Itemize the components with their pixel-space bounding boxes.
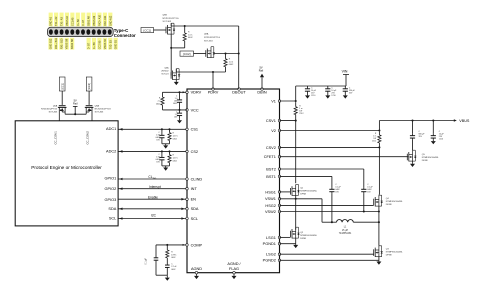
svg-text:VBUS A4: VBUS A4 <box>66 15 69 26</box>
svg-text:Rail: Rail <box>73 102 78 106</box>
svg-text:V2: V2 <box>271 129 276 133</box>
svg-text:4.99 k: 4.99 k <box>171 254 176 256</box>
svg-text:14.7 k: 14.7 k <box>173 158 178 160</box>
svg-text:I2C: I2C <box>151 213 157 217</box>
svg-text:0402: 0402 <box>173 103 177 105</box>
svg-text:2.2: 2.2 <box>158 101 161 103</box>
svg-text:NTZD3152PT1G: NTZD3152PT1G <box>163 18 179 20</box>
svg-text:[CC2]: [CC2] <box>183 52 191 56</box>
svg-text:VSW1: VSW1 <box>265 197 276 201</box>
svg-text:SDA: SDA <box>191 207 199 211</box>
svg-text:TX1+ A2: TX1+ A2 <box>55 16 58 26</box>
svg-text:VIN: VIN <box>342 69 348 73</box>
svg-text:CSV2: CSV2 <box>266 146 276 150</box>
svg-text:SBU1 A8: SBU1 A8 <box>88 15 91 26</box>
svg-text:1.0 k: 1.0 k <box>229 61 233 63</box>
svg-text:SDA: SDA <box>108 207 116 211</box>
svg-text:AGND /: AGND / <box>227 262 241 266</box>
svg-text:0402: 0402 <box>171 269 175 271</box>
svg-text:SOT-363: SOT-363 <box>163 21 172 23</box>
svg-text:0402: 0402 <box>173 138 177 140</box>
svg-text:NTMFS5C604NL: NTMFS5C604NL <box>300 191 318 193</box>
svg-text:RX1+ B11: RX1+ B11 <box>55 38 58 50</box>
svg-text:NTZD3152PT1G: NTZD3152PT1G <box>204 37 220 39</box>
svg-text:V1: V1 <box>271 99 276 103</box>
svg-text:Q8B: Q8B <box>163 14 168 16</box>
svg-text:VDRV: VDRV <box>191 91 202 95</box>
svg-text:VBUS B9: VBUS B9 <box>66 38 69 49</box>
svg-text:D- A7: D- A7 <box>82 19 85 26</box>
svg-text:RX1- B10: RX1- B10 <box>60 38 63 49</box>
svg-text:IND: IND <box>153 178 157 180</box>
svg-text:CC_COM2: CC_COM2 <box>86 131 90 145</box>
svg-text:BST1: BST1 <box>266 175 276 179</box>
svg-text:FLAG: FLAG <box>229 267 239 271</box>
svg-text:DFN8: DFN8 <box>300 194 306 196</box>
svg-text:NTMFS5C604NL: NTMFS5C604NL <box>386 201 404 203</box>
svg-text:ADC2: ADC2 <box>106 150 116 154</box>
svg-text:PDRV: PDRV <box>208 91 219 95</box>
svg-text:DFN8: DFN8 <box>300 238 306 240</box>
svg-text:Rail: Rail <box>259 68 264 72</box>
svg-text:SOT-363: SOT-363 <box>49 112 58 114</box>
svg-text:GND A1: GND A1 <box>50 16 53 26</box>
svg-text:Protocol Engine or Microcontro: Protocol Engine or Microcontroller <box>31 165 102 170</box>
svg-text:GND B1: GND B1 <box>115 39 118 49</box>
svg-text:7443551151: 7443551151 <box>339 233 352 235</box>
svg-text:[CC1]: [CC1] <box>60 83 64 90</box>
svg-text:ADC1: ADC1 <box>106 127 116 131</box>
svg-text:GND A12: GND A12 <box>109 15 112 26</box>
svg-text:1210: 1210 <box>311 95 315 97</box>
svg-text:NTMFS5C604NL: NTMFS5C604NL <box>300 235 318 237</box>
svg-text:RX2+ A10: RX2+ A10 <box>98 14 101 26</box>
svg-text:SBU2 B8: SBU2 B8 <box>71 39 74 50</box>
svg-text:SOT-363: SOT-363 <box>95 112 104 114</box>
svg-text:CC2 B5: CC2 B5 <box>98 40 101 49</box>
svg-text:Interrupt: Interrupt <box>149 185 161 189</box>
svg-text:VCC: VCC <box>191 108 199 112</box>
svg-text:SOT-23: SOT-23 <box>161 74 169 76</box>
svg-text:DFN8: DFN8 <box>386 254 392 256</box>
svg-text:[CC1]: [CC1] <box>144 29 152 33</box>
svg-text:TX2- B3: TX2- B3 <box>109 40 112 50</box>
svg-text:CLIND: CLIND <box>191 177 203 181</box>
svg-text:VBUS B4: VBUS B4 <box>104 38 107 49</box>
svg-text:HSG2: HSG2 <box>265 204 275 208</box>
svg-text:2512: 2512 <box>299 113 303 115</box>
svg-text:D- B7: D- B7 <box>88 42 91 49</box>
svg-text:CC_COM1: CC_COM1 <box>54 131 58 145</box>
svg-text:NTZD3152PT1G: NTZD3152PT1G <box>95 109 111 111</box>
svg-text:NTMFS5C604NL: NTMFS5C604NL <box>386 251 404 253</box>
svg-text:VBUS A9: VBUS A9 <box>93 15 96 26</box>
svg-text:TX1- A3: TX1- A3 <box>61 17 64 26</box>
svg-text:0.1 µF: 0.1 µF <box>146 257 148 264</box>
svg-text:2512: 2512 <box>372 141 376 143</box>
svg-text:SCL: SCL <box>109 217 117 221</box>
svg-text:[CC2]: [CC2] <box>87 83 91 90</box>
svg-text:0402: 0402 <box>171 257 175 259</box>
svg-text:VBUS: VBUS <box>459 119 470 123</box>
svg-text:GPIO2: GPIO2 <box>105 187 117 191</box>
svg-text:DFN8: DFN8 <box>422 160 428 162</box>
svg-text:0402: 0402 <box>173 160 177 162</box>
svg-text:HSG1: HSG1 <box>265 190 275 194</box>
svg-text:1210: 1210 <box>331 95 335 97</box>
svg-text:DBOUT: DBOUT <box>232 91 246 95</box>
svg-text:CS1: CS1 <box>191 128 198 132</box>
svg-text:PGND2: PGND2 <box>263 259 276 263</box>
svg-text:NTMFS5C604NL: NTMFS5C604NL <box>422 157 440 159</box>
svg-text:BST2: BST2 <box>266 167 276 171</box>
svg-text:CC1 A5: CC1 A5 <box>71 17 74 26</box>
svg-text:EN: EN <box>191 198 197 202</box>
svg-text:15 µH: 15 µH <box>342 230 349 232</box>
svg-text:Enable: Enable <box>148 195 158 199</box>
svg-text:LSG2: LSG2 <box>266 253 276 257</box>
svg-text:1210: 1210 <box>439 139 443 141</box>
svg-text:Q8A: Q8A <box>204 33 209 36</box>
svg-text:GPIO1: GPIO1 <box>105 177 117 181</box>
svg-text:14.7 k: 14.7 k <box>173 135 178 137</box>
svg-text:GPIO3: GPIO3 <box>105 198 117 202</box>
svg-text:DFN8: DFN8 <box>386 204 392 206</box>
svg-text:RX2- A11: RX2- A11 <box>104 15 107 26</box>
svg-text:2N7002: 2N7002 <box>161 71 169 73</box>
svg-text:CSV1: CSV1 <box>266 119 276 123</box>
svg-text:NTZD3152PT1G: NTZD3152PT1G <box>41 109 57 111</box>
svg-text:CFET1: CFET1 <box>264 155 276 159</box>
svg-text:D+ A6: D+ A6 <box>77 19 80 26</box>
svg-text:1.0 k: 1.0 k <box>188 34 192 36</box>
svg-text:SOT-363: SOT-363 <box>204 40 213 42</box>
svg-text:Q8A: Q8A <box>95 105 100 108</box>
svg-text:VSW2: VSW2 <box>265 210 276 214</box>
svg-text:Q6A: Q6A <box>164 66 169 69</box>
svg-text:SCL: SCL <box>191 217 199 221</box>
svg-text:INT: INT <box>191 187 198 191</box>
svg-text:2.2 nF: 2.2 nF <box>171 266 177 268</box>
svg-text:GND B12: GND B12 <box>49 38 52 49</box>
svg-text:LSG1: LSG1 <box>266 236 276 240</box>
svg-text:COMP: COMP <box>191 243 203 247</box>
svg-text:CS2: CS2 <box>191 150 198 154</box>
svg-text:DBIN: DBIN <box>257 91 266 95</box>
svg-text:Connector: Connector <box>114 33 136 38</box>
svg-text:AGND: AGND <box>191 267 202 271</box>
svg-text:Q6A: Q6A <box>53 105 58 108</box>
svg-text:PGND1: PGND1 <box>263 242 276 246</box>
svg-text:0402: 0402 <box>156 103 160 105</box>
svg-text:D+ B6: D+ B6 <box>93 42 96 49</box>
